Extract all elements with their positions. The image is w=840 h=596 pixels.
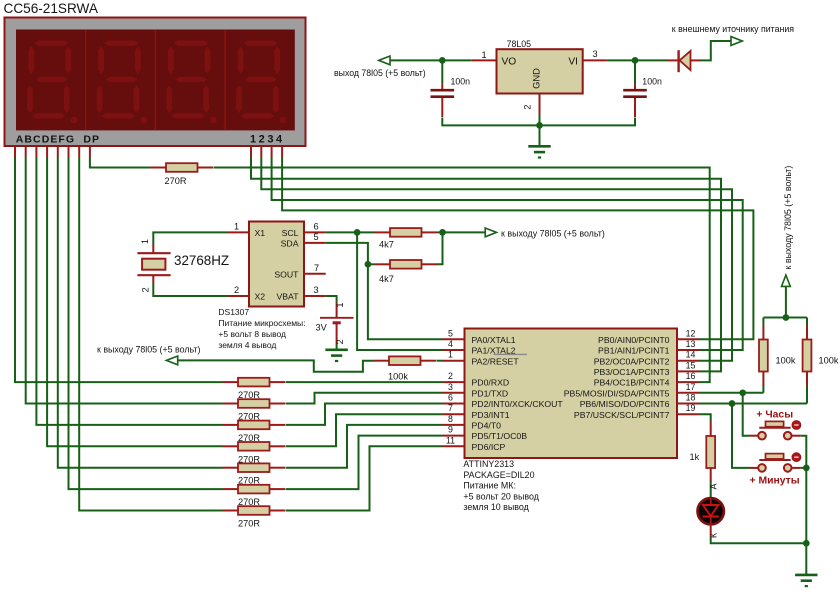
svg-text:PB0/AIN0/PCINT0: PB0/AIN0/PCINT0 bbox=[598, 335, 670, 345]
power terminal arrow +5 buttons bbox=[782, 275, 791, 286]
display pin G bbox=[78, 147, 80, 158]
svg-text:1k: 1k bbox=[690, 452, 700, 462]
junction SCL node bbox=[354, 229, 361, 236]
junction +5 node buttons bbox=[783, 314, 790, 321]
resistor R2 4k7 bbox=[375, 228, 438, 250]
svg-text:1: 1 bbox=[481, 50, 486, 60]
ATtiny pin 11 (PD6/ICP) bbox=[443, 435, 506, 452]
wire PB5 net bbox=[699, 392, 763, 394]
wire SCL to pin4 bbox=[357, 232, 442, 350]
svg-text:8: 8 bbox=[448, 414, 453, 424]
wire 270R F to pin bbox=[286, 436, 443, 490]
IC U3 ATTINY2313 bbox=[465, 329, 678, 459]
resistor R10 100k bbox=[803, 325, 839, 386]
svg-text:PB5/MOSI/DI/SDA/PCINT5: PB5/MOSI/DI/SDA/PCINT5 bbox=[564, 388, 670, 398]
wire right 100k bottom bbox=[806, 386, 808, 404]
wire left 100k top bbox=[762, 318, 764, 326]
wire to button1 left bbox=[743, 393, 749, 436]
junction PB6 button node bbox=[729, 400, 736, 407]
svg-text:PB4/OC1B/PCINT4: PB4/OC1B/PCINT4 bbox=[594, 378, 670, 388]
svg-text:PB6/MISO/DO/PCINT6: PB6/MISO/DO/PCINT6 bbox=[580, 399, 670, 409]
svg-text:SOUT: SOUT bbox=[274, 270, 299, 280]
wire DP to 270R bbox=[90, 158, 151, 168]
wire 270R DP to PB4 pin16 bbox=[214, 168, 710, 383]
wire digit3 to PB1 bbox=[272, 158, 743, 350]
LED top lead bbox=[710, 498, 712, 500]
display digit 4 segments bbox=[236, 41, 286, 124]
wire 270R C to pin bbox=[286, 404, 443, 425]
wire left cap top lead bbox=[441, 60, 443, 84]
ATtiny pin 16 (PB4/OC1B/PCINT4) bbox=[594, 371, 699, 388]
svg-text:VO: VO bbox=[502, 56, 517, 67]
wire battery gnd stem bbox=[336, 344, 338, 350]
svg-text:PB3/OC1A/PCINT3: PB3/OC1A/PCINT3 bbox=[594, 367, 670, 377]
wire right cap top lead bbox=[634, 60, 636, 84]
resistor R11 270R bbox=[223, 485, 286, 507]
svg-text:100n: 100n bbox=[451, 77, 471, 87]
svg-text:1: 1 bbox=[448, 350, 453, 360]
wire 100k to pin1 bbox=[437, 360, 443, 362]
wire VBAT to battery bbox=[326, 296, 337, 303]
display digit 1 segments bbox=[27, 41, 77, 124]
junction right cap node bbox=[632, 57, 639, 64]
display pin D bbox=[46, 147, 48, 158]
DS1307 pin 3 (VBAT) stub bbox=[304, 295, 326, 297]
wire seg F to 270R bbox=[69, 158, 223, 489]
svg-text:к выходу 78l05 (+5 вольт): к выходу 78l05 (+5 вольт) bbox=[97, 344, 200, 354]
svg-text:4k7: 4k7 bbox=[379, 274, 394, 284]
resistor R7 270R bbox=[223, 399, 286, 421]
svg-text:13: 13 bbox=[686, 339, 696, 349]
power terminal arrow VCC out left bbox=[379, 56, 390, 65]
wire 1k to LED bbox=[710, 482, 712, 498]
svg-text:к выходу 78l05 (+5 вольт): к выходу 78l05 (+5 вольт) bbox=[783, 166, 793, 270]
ATtiny pin 2 (PD0/RXD) bbox=[443, 371, 510, 388]
svg-text:100k: 100k bbox=[776, 356, 796, 366]
svg-text:78L05: 78L05 bbox=[507, 39, 532, 49]
junction buttons gnd node bbox=[803, 465, 810, 472]
wire 270R G to pin bbox=[286, 446, 443, 510]
svg-text:3: 3 bbox=[592, 49, 597, 59]
ATtiny pin 7 (PD3/INT1) bbox=[443, 403, 510, 420]
svg-text:GND: GND bbox=[531, 68, 542, 89]
junction 4k7 +5 node bbox=[439, 229, 446, 236]
svg-text:VI: VI bbox=[568, 56, 578, 67]
capacitor C2 100n bbox=[623, 77, 662, 118]
svg-text:PD0/RXD: PD0/RXD bbox=[472, 378, 510, 388]
wire seg B to 270R bbox=[26, 158, 223, 404]
wire left 100k bottom bbox=[762, 386, 764, 393]
ATtiny pin 1 (PA2/RESET) bbox=[443, 350, 520, 367]
wire 100k top rail bbox=[763, 317, 807, 319]
resistor R5 270R bbox=[151, 163, 214, 186]
78L05 pin 2 (GND) stub bbox=[539, 94, 541, 115]
resistor R12 270R bbox=[223, 506, 286, 528]
svg-text:PACKAGE=DIL20: PACKAGE=DIL20 bbox=[463, 470, 534, 480]
wire digit1 to PB3 bbox=[251, 158, 721, 371]
svg-text:Питание микросхемы:: Питание микросхемы: bbox=[218, 318, 305, 328]
wire to button2 left bbox=[732, 404, 749, 468]
wire SDA to pin5 bbox=[368, 264, 443, 339]
svg-text:1: 1 bbox=[234, 222, 239, 232]
svg-text:X1: X1 bbox=[255, 228, 266, 238]
resistor R6 270R bbox=[223, 378, 286, 400]
RESET overline bbox=[494, 353, 528, 355]
ATtiny pin 19 (PB7/USCK/SCL/PCINT7) bbox=[574, 403, 699, 420]
svg-text:3V: 3V bbox=[316, 323, 328, 333]
ATtiny pin 12 (PB0/AIN0/PCINT0) bbox=[598, 328, 699, 345]
svg-text:1: 1 bbox=[140, 239, 150, 244]
svg-text:к внешнему иточнику питания: к внешнему иточнику питания bbox=[672, 24, 794, 34]
display pin digit 3 bbox=[271, 147, 273, 158]
svg-text:18: 18 bbox=[686, 393, 696, 403]
svg-text:VBAT: VBAT bbox=[276, 292, 299, 302]
wire PB7 to 1k bbox=[699, 414, 711, 421]
svg-text:3: 3 bbox=[448, 382, 453, 392]
junction left cap node bbox=[439, 57, 446, 64]
svg-text:2: 2 bbox=[523, 104, 533, 109]
display pin E bbox=[57, 147, 59, 158]
wire left cap to gnd bus bbox=[442, 118, 539, 126]
svg-text:+5 вольт 8 вывод: +5 вольт 8 вывод bbox=[218, 329, 286, 339]
svg-text:7: 7 bbox=[314, 263, 319, 273]
svg-text:100k: 100k bbox=[819, 356, 839, 366]
junction SDA node bbox=[365, 261, 372, 268]
display pin digit 1 bbox=[250, 147, 252, 158]
ATtiny sub labels bbox=[463, 459, 539, 512]
svg-text:PB7/USCK/SCL/PCINT7: PB7/USCK/SCL/PCINT7 bbox=[574, 410, 670, 420]
svg-text:ATTINY2313: ATTINY2313 bbox=[463, 459, 514, 469]
wire gnd stem bbox=[539, 125, 541, 146]
ATtiny pin 6 (PD2/INT0/XCK/CKOUT) bbox=[443, 393, 564, 410]
svg-text:A: A bbox=[708, 483, 718, 489]
svg-text:4: 4 bbox=[448, 339, 453, 349]
svg-text:PA2/RESET: PA2/RESET bbox=[472, 356, 520, 366]
display pin digit 4 bbox=[281, 147, 283, 158]
wire 270R E to pin bbox=[286, 425, 443, 468]
svg-text:SCL: SCL bbox=[282, 228, 299, 238]
wire seg C to 270R bbox=[36, 158, 222, 425]
wire seg E to 270R bbox=[58, 158, 223, 468]
wire 4k7 bottom to +5 node bbox=[437, 232, 443, 264]
svg-text:1: 1 bbox=[335, 302, 345, 307]
wire button1 right down bbox=[801, 436, 807, 468]
78L05 pin 1 stub bbox=[472, 59, 497, 61]
ATtiny pin 14 (PB2/OC0A/PCINT2) bbox=[594, 350, 699, 367]
ATtiny pin 3 (PD1/TXD) bbox=[443, 382, 509, 399]
wire X1 top wire bbox=[153, 232, 228, 244]
wire seg A to 270R bbox=[15, 158, 223, 382]
svg-text:100n: 100n bbox=[642, 77, 662, 87]
wire VO rail bbox=[390, 59, 472, 61]
wire SCL to R 4k7 top bbox=[326, 231, 375, 233]
svg-text:19: 19 bbox=[686, 403, 696, 413]
ground bottom right ground bbox=[795, 575, 817, 586]
DS1307 pin 5 (SDA) stub bbox=[304, 242, 326, 244]
power terminal arrow VCC for RESET bbox=[166, 356, 177, 365]
svg-text:Питание МК:: Питание МК: bbox=[463, 481, 516, 491]
wire SDA to node bbox=[326, 243, 368, 264]
svg-text:DS1307: DS1307 bbox=[218, 307, 249, 317]
ATtiny pin 13 (PB1/AIN1/PCINT1) bbox=[598, 339, 699, 356]
svg-text:PD4/T0: PD4/T0 bbox=[472, 421, 502, 431]
wire digit4 to PB0 bbox=[282, 158, 753, 339]
display pin DP bbox=[89, 147, 91, 158]
LED bottom lead bbox=[710, 522, 712, 536]
battery BT1 3V bbox=[316, 296, 354, 344]
svg-text:16: 16 bbox=[686, 371, 696, 381]
wire digit2 to PB2 bbox=[261, 158, 732, 361]
svg-text:9: 9 bbox=[448, 425, 453, 435]
power terminal arrow external supply bbox=[731, 37, 742, 46]
LED D2 bbox=[698, 498, 724, 524]
svg-text:15: 15 bbox=[686, 360, 696, 370]
display digit pin labels 1234 bbox=[250, 134, 285, 146]
svg-text:100k: 100k bbox=[388, 371, 408, 381]
svg-text:12: 12 bbox=[686, 328, 696, 338]
wire X2 bottom wire bbox=[153, 284, 228, 296]
wire button2 right bbox=[801, 467, 807, 469]
ATtiny pin 9 (PD5/T1/OC0B) bbox=[443, 425, 528, 442]
display segment pin labels ABCDEFG DP bbox=[16, 134, 100, 146]
78L05 pin 3 stub bbox=[583, 59, 607, 61]
regulator U1 78L05 bbox=[497, 39, 583, 94]
DS1307 pin 7 (SOUT) stub bbox=[304, 273, 326, 275]
svg-text:PD1/TXD: PD1/TXD bbox=[472, 388, 509, 398]
DS1307 pin 1 (X1) stub bbox=[228, 231, 249, 233]
svg-text:DP: DP bbox=[83, 134, 100, 146]
svg-text:1234: 1234 bbox=[250, 134, 285, 146]
svg-text:4k7: 4k7 bbox=[379, 240, 394, 250]
svg-text:11: 11 bbox=[446, 435, 455, 445]
svg-text:CC56-21SRWA: CC56-21SRWA bbox=[4, 1, 99, 16]
ATtiny pin 15 (PB3/OC1A/PCINT3) bbox=[594, 360, 699, 377]
wire diode to ext terminal bbox=[701, 41, 732, 60]
svg-text:14: 14 bbox=[686, 350, 696, 360]
resistor R9 100k bbox=[759, 325, 796, 386]
svg-text:PB2/OC0A/PCINT2: PB2/OC0A/PCINT2 bbox=[594, 356, 670, 366]
svg-text:PD6/ICP: PD6/ICP bbox=[472, 442, 506, 452]
svg-text:5: 5 bbox=[448, 328, 453, 338]
display pin C bbox=[35, 147, 37, 158]
svg-text:2: 2 bbox=[448, 371, 453, 381]
wire right cap to gnd bus bbox=[540, 118, 636, 126]
display pin A bbox=[14, 147, 16, 158]
capacitor C1 100n bbox=[431, 77, 471, 118]
svg-text:земля 10 вывод: земля 10 вывод bbox=[463, 502, 529, 512]
display digit 2 segments bbox=[97, 41, 147, 124]
DS1307 pin 2 (X2) stub bbox=[228, 295, 249, 297]
wire seg G to 270R bbox=[79, 158, 222, 511]
wire +5 stem bbox=[785, 286, 787, 317]
resistor R4 100k bbox=[374, 356, 437, 381]
display digit face bbox=[16, 30, 295, 131]
resistor R10 270R bbox=[223, 463, 286, 485]
wire buttons to ground bbox=[805, 468, 807, 575]
display panel separator 2 bbox=[154, 30, 156, 131]
resistor R9 270R bbox=[223, 442, 286, 464]
svg-text:SDA: SDA bbox=[281, 239, 299, 249]
wire 270R D to pin bbox=[286, 414, 443, 446]
diode D1 bbox=[668, 50, 701, 72]
crystal X1 32768HZ bbox=[137, 232, 229, 296]
power terminal arrow +5 right of 4k7 bbox=[485, 228, 496, 237]
svg-text:5: 5 bbox=[313, 232, 318, 242]
svg-text:270R: 270R bbox=[238, 519, 260, 529]
wire 270R B to pin bbox=[286, 393, 443, 404]
resistor R11 1k bbox=[690, 422, 716, 483]
svg-text:6: 6 bbox=[448, 393, 453, 403]
DS1307 pin 6 (SCL) stub bbox=[304, 231, 326, 233]
svg-text:6: 6 bbox=[313, 222, 318, 232]
svg-text:PA0/XTAL1: PA0/XTAL1 bbox=[472, 335, 516, 345]
ATtiny pin 4 (PA1/XTAL2) bbox=[443, 339, 516, 356]
wire seg D to 270R bbox=[47, 158, 222, 446]
ATtiny pin 18 (PB6/MISO/DO/PCINT6) bbox=[580, 393, 699, 410]
svg-text:земля 4 вывод: земля 4 вывод bbox=[218, 340, 276, 350]
svg-text:32768HZ: 32768HZ bbox=[174, 253, 229, 268]
svg-text:2: 2 bbox=[141, 287, 151, 292]
ATtiny pin 8 (PD4/T0) bbox=[443, 414, 502, 431]
svg-text:7: 7 bbox=[448, 403, 453, 413]
resistor R3 4k7 bbox=[375, 260, 438, 284]
display pin B bbox=[25, 147, 27, 158]
DS1307 sub labels bbox=[218, 307, 305, 350]
wire 4k7s to +5 terminal bbox=[437, 231, 486, 233]
ground battery ground bbox=[325, 350, 347, 361]
svg-text:к выходу 78l05 (+5 вольт): к выходу 78l05 (+5 вольт) bbox=[501, 228, 605, 238]
svg-text:2: 2 bbox=[234, 285, 239, 295]
svg-text:PD3/INT1: PD3/INT1 bbox=[472, 410, 510, 420]
IC U2 DS1307 bbox=[249, 222, 304, 307]
wire right 100k top bbox=[806, 318, 808, 326]
junction PB5 button node bbox=[739, 389, 746, 396]
svg-text:PD2/INT0/XCK/CKOUT: PD2/INT0/XCK/CKOUT bbox=[472, 399, 564, 409]
ATtiny pin 17 (PB5/MOSI/DI/SDA/PCINT5) bbox=[564, 382, 699, 399]
display pin F bbox=[68, 147, 70, 158]
svg-text:выход 78l05 (+5 вольт): выход 78l05 (+5 вольт) bbox=[334, 68, 426, 78]
svg-text:+ Минуты: + Минуты bbox=[750, 476, 800, 487]
junction led gnd node bbox=[803, 540, 810, 547]
svg-text:270R: 270R bbox=[165, 176, 187, 186]
wire PB6 net bbox=[699, 403, 807, 405]
display panel separator 1 bbox=[85, 30, 87, 131]
resistor R8 270R bbox=[223, 421, 286, 443]
svg-text:ABCDEFG: ABCDEFG bbox=[16, 134, 75, 146]
display DISP1 body bbox=[5, 18, 306, 147]
svg-text:PD5/T1/OC0B: PD5/T1/OC0B bbox=[472, 431, 528, 441]
wire gnd pin to bus bbox=[539, 115, 541, 126]
svg-text:X2: X2 bbox=[255, 292, 266, 302]
svg-text:+ Часы: + Часы bbox=[756, 409, 793, 420]
svg-text:+5 вольт 20 вывод: +5 вольт 20 вывод bbox=[463, 491, 539, 501]
wire VI rail bbox=[607, 59, 668, 61]
wire LED to ground net bbox=[711, 537, 807, 544]
display digit 3 segments bbox=[166, 41, 216, 124]
display panel separator 3 bbox=[224, 30, 226, 131]
svg-text:17: 17 bbox=[686, 382, 696, 392]
wire RESET pullup wire bbox=[178, 360, 374, 371]
svg-text:PB1/AIN1/PCINT1: PB1/AIN1/PCINT1 bbox=[598, 346, 670, 356]
push button SW2 minutes bbox=[749, 453, 801, 487]
svg-text:3: 3 bbox=[313, 285, 318, 295]
wire SDA node to 4k7 bbox=[368, 263, 375, 265]
junction power gnd node bbox=[536, 122, 543, 129]
ground power ground bbox=[528, 146, 550, 157]
display pin digit 2 bbox=[260, 147, 262, 158]
ATtiny pin 5 (PA0/XTAL1) bbox=[443, 328, 516, 345]
wire 270R A to pin bbox=[286, 381, 443, 383]
push button SW1 hours bbox=[749, 409, 801, 439]
